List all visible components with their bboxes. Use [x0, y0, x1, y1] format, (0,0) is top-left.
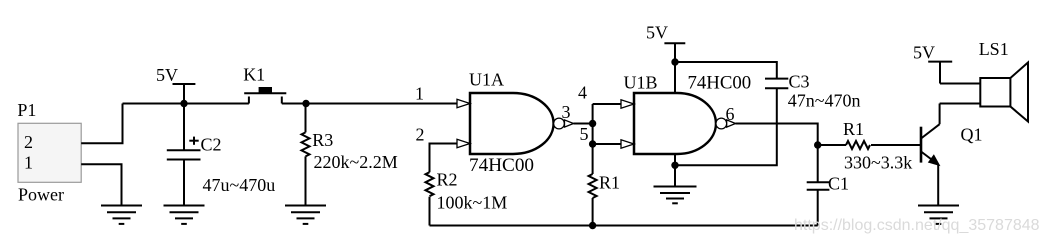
svg-text:U1A: U1A [469, 70, 504, 90]
node junction K1/R3 [302, 100, 309, 107]
svg-text:LS1: LS1 [979, 39, 1009, 59]
LS1 horn [1010, 63, 1028, 122]
transistor Q1 [921, 104, 980, 206]
Q1 emitter arrow [929, 155, 939, 165]
op-amp U1B NAND gate body [634, 93, 716, 154]
node junction out/R1/C1 [814, 141, 821, 148]
U1A input2 arrow [457, 139, 470, 147]
ground G1 (P1 pin1) [101, 206, 142, 224]
capacitor C1 [807, 145, 830, 226]
svg-text:5V: 5V [913, 43, 935, 63]
svg-text:P1: P1 [17, 100, 36, 120]
resistor R2 [426, 172, 434, 225]
node junction input5/R1 [589, 140, 596, 147]
svg-text:C2: C2 [201, 134, 222, 154]
node junction 5V/U1B [671, 58, 678, 65]
wire 5V rail to C3 [675, 62, 777, 79]
svg-text:47n~470n: 47n~470n [788, 91, 861, 111]
svg-text:5: 5 [580, 124, 589, 144]
svg-text:74HC00: 74HC00 [469, 155, 534, 176]
U1A output cone [565, 120, 574, 127]
svg-text:1: 1 [24, 153, 33, 173]
ground G2 (C2) [164, 206, 205, 224]
ground G5 (Q1) [918, 206, 959, 224]
wire U1B output to corner [736, 124, 818, 146]
svg-text:5V: 5V [156, 65, 178, 85]
speaker LS1 [980, 78, 1010, 107]
power 5V symbol (left) [173, 84, 196, 104]
wire U1B power stem [674, 62, 676, 93]
svg-text:330~3.3k: 330~3.3k [844, 152, 912, 172]
U1B input4 arrow [621, 100, 634, 108]
svg-text:R1: R1 [599, 173, 620, 193]
node junction R1/bottom rail [589, 222, 596, 229]
wire P1 pin2 to 5V rail [81, 104, 122, 144]
svg-text:5V: 5V [646, 23, 668, 43]
wire to U1B input5 [593, 143, 622, 145]
wire U1A input2 [430, 144, 458, 173]
U1B input5 arrow [621, 140, 634, 148]
svg-text:U1B: U1B [624, 73, 658, 93]
power 5V symbol (right) [928, 62, 952, 84]
U1A output bubble [554, 118, 565, 129]
connector P1 box [18, 123, 81, 182]
svg-text:100k~1M: 100k~1M [437, 192, 508, 212]
U1B output cone [727, 120, 736, 127]
svg-text:K1: K1 [243, 65, 265, 85]
wire 5V to speaker top [940, 83, 980, 85]
wire feedback vertical between gates [592, 104, 594, 174]
svg-text:74HC00: 74HC00 [688, 73, 752, 94]
svg-text:220k~2.2M: 220k~2.2M [314, 152, 398, 172]
svg-text:R2: R2 [437, 170, 458, 190]
wire C3 bottom to U1B ground stem [675, 88, 777, 165]
svg-text:2: 2 [416, 125, 425, 145]
svg-text:2: 2 [24, 132, 33, 152]
switch K1 [244, 93, 286, 103]
wire K1 right to U1A input1 [282, 103, 458, 105]
ground G4 (U1B) [654, 187, 697, 204]
svg-text:https://blog.csdn.net/qq_35787: https://blog.csdn.net/qq_35787848 [794, 217, 1040, 234]
node junction U1B gnd stem [671, 162, 678, 169]
wire U1B bottom stem to ground [674, 154, 676, 187]
K1 button cap [259, 87, 272, 93]
wire bottom feedback rail [430, 225, 818, 227]
resistor R3 [302, 104, 310, 206]
capacitor C2 (polarized) [167, 104, 201, 206]
node junction 5V/C2 on rail [180, 100, 187, 107]
svg-text:3: 3 [562, 102, 571, 122]
capacitor C3 [765, 79, 788, 89]
resistor R1 (horizontal, 330~3.3k) [818, 141, 920, 149]
wire to U1B input4 [593, 103, 622, 105]
node junction U1A out [589, 120, 596, 127]
ground G3 (R3) [285, 206, 326, 224]
svg-text:6: 6 [726, 104, 735, 124]
svg-text:R1: R1 [843, 119, 864, 139]
U1A input1 arrow [457, 99, 470, 107]
svg-text:C1: C1 [828, 173, 849, 193]
U1B output bubble [716, 118, 727, 129]
svg-text:1: 1 [415, 84, 424, 104]
power 5V symbol (U1B) [664, 43, 685, 62]
svg-text:4: 4 [578, 82, 587, 102]
op-amp U1A NAND gate body [470, 93, 554, 154]
svg-text:R3: R3 [312, 130, 333, 150]
wire top rail left segment [123, 103, 249, 105]
wire P1 pin1 to ground [81, 164, 121, 205]
svg-text:Power: Power [18, 185, 64, 205]
wire U1A output to node [574, 123, 593, 125]
svg-text:47u~470u: 47u~470u [203, 175, 276, 195]
svg-text:Q1: Q1 [961, 125, 983, 145]
svg-text:C3: C3 [789, 71, 810, 91]
resistor R1 (vertical) [589, 174, 597, 226]
